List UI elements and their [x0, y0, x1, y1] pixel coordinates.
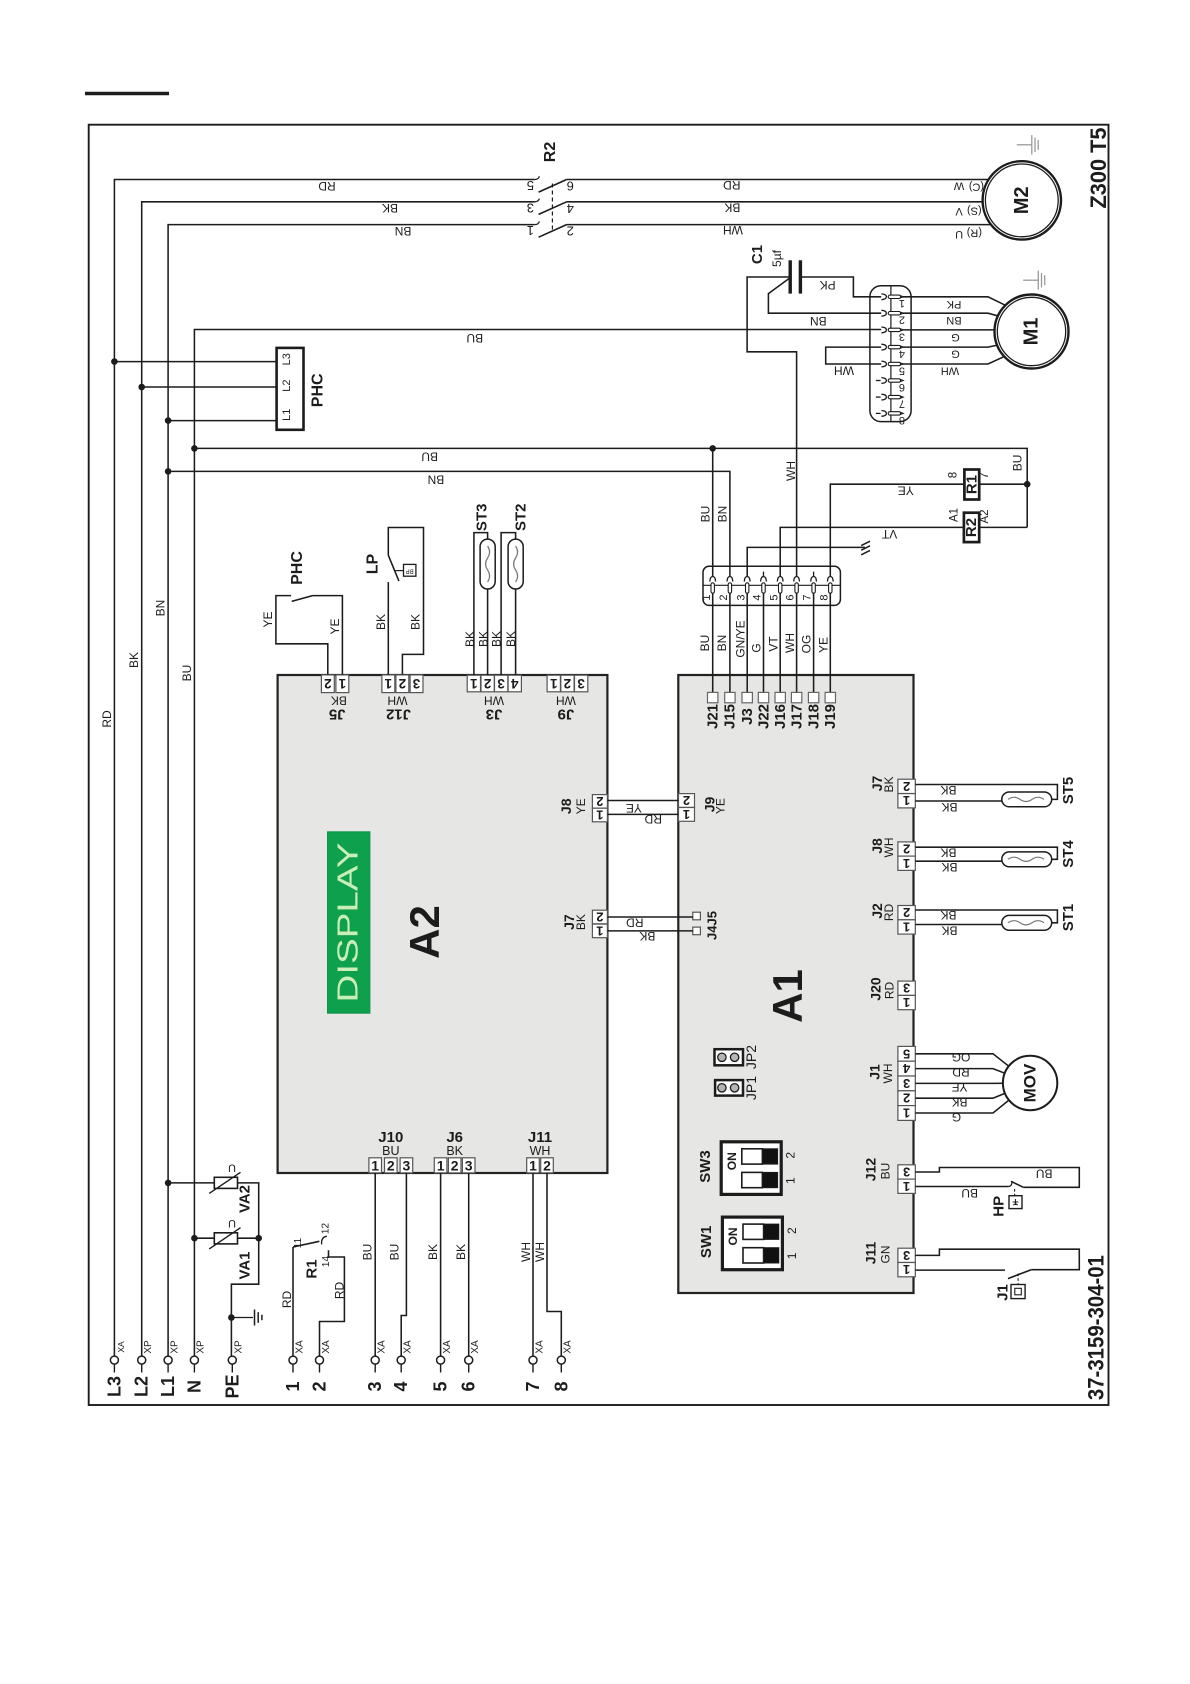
- svg-text:J5: J5: [329, 705, 346, 722]
- svg-text:W: W: [953, 180, 964, 192]
- wire J7 to J5 RD: [607, 916, 692, 930]
- svg-text:XA: XA: [377, 1340, 388, 1354]
- svg-text:J16: J16: [772, 704, 789, 729]
- wire X2 pin1 to pad J21 BU: [698, 593, 713, 692]
- connector X1 body: [870, 286, 911, 422]
- svg-text:4: 4: [899, 348, 905, 360]
- svg-text:WH: WH: [530, 1144, 551, 1158]
- svg-text:ST5: ST5: [1060, 777, 1077, 805]
- svg-text:2: 2: [903, 779, 910, 794]
- wire L2 BK to switch R2: [127, 201, 535, 1356]
- dip switch SW3: [697, 1142, 798, 1195]
- wire J12 pin3 loop BU: [915, 1166, 1079, 1187]
- svg-text:1: 1: [903, 1106, 910, 1121]
- varistor VA2: [165, 1162, 259, 1239]
- svg-text:1: 1: [527, 223, 534, 238]
- wire C1 to X1 pin2 BN: [768, 279, 881, 328]
- svg-text:BK: BK: [454, 1244, 468, 1260]
- svg-text:3: 3: [497, 676, 505, 691]
- pad J19 on A1: [822, 692, 839, 729]
- pad J17 on A1: [788, 692, 805, 729]
- svg-text:3: 3: [412, 676, 420, 691]
- svg-text:J12: J12: [386, 705, 411, 722]
- svg-text:2: 2: [451, 1157, 459, 1173]
- svg-text:LP: LP: [364, 553, 381, 574]
- svg-text:XA: XA: [321, 1340, 332, 1354]
- wire BN branch L1 to connector X2 pin2: [165, 468, 730, 576]
- svg-text:C1: C1: [749, 245, 766, 264]
- wire C1 to X2 pin6 WH: [747, 277, 798, 576]
- svg-text:(R): (R): [967, 227, 982, 239]
- wire X1 pin2 to M1 BN: [893, 313, 1032, 326]
- svg-text:BN: BN: [428, 473, 445, 487]
- switch PHC door switch: [261, 551, 342, 675]
- wire J7 to J4 BK: [607, 929, 692, 943]
- connector X1 pin 5: [881, 361, 905, 376]
- svg-text:1: 1: [384, 676, 392, 691]
- svg-text:4: 4: [902, 1061, 910, 1076]
- wire X2 pin5 to pad J16 VT: [766, 593, 780, 692]
- svg-text:3: 3: [899, 330, 905, 342]
- svg-text:7: 7: [899, 398, 905, 410]
- svg-text:WH: WH: [834, 364, 854, 378]
- svg-text:BK: BK: [374, 614, 388, 630]
- svg-text:BK: BK: [724, 200, 740, 214]
- svg-text:XA: XA: [294, 1340, 305, 1354]
- svg-text:VA1: VA1: [237, 1251, 254, 1279]
- svg-text:BU: BU: [387, 1244, 401, 1261]
- terminal 7: [523, 1340, 545, 1392]
- wire R2 to M2 W RD: [567, 178, 1000, 193]
- svg-text:U: U: [228, 1162, 236, 1174]
- svg-text:L2: L2: [281, 379, 293, 391]
- svg-text:BK: BK: [426, 1244, 440, 1260]
- svg-text:R2: R2: [542, 142, 559, 163]
- svg-text:J17: J17: [788, 704, 805, 729]
- svg-text:J8: J8: [558, 798, 574, 814]
- svg-text:BK: BK: [941, 800, 957, 814]
- relay coil R2: [949, 508, 1028, 542]
- connector J5 on A2: [321, 675, 348, 722]
- connector J11 on A1: [863, 1241, 916, 1277]
- svg-text:3: 3: [465, 1157, 473, 1173]
- connector J7 on A1: [869, 776, 915, 809]
- svg-text:BU: BU: [360, 1244, 374, 1261]
- svg-text:1: 1: [785, 1252, 799, 1259]
- ground symbol at M1: [1023, 271, 1044, 290]
- terminal 5: [431, 1340, 453, 1392]
- svg-text:8: 8: [948, 472, 960, 478]
- display module DISPLAY: [328, 832, 370, 1013]
- svg-text:2: 2: [596, 794, 603, 809]
- svg-text:1: 1: [529, 1157, 537, 1173]
- svg-text:BK: BK: [463, 631, 477, 647]
- svg-text:RD: RD: [882, 904, 896, 922]
- svg-text:6: 6: [459, 1381, 479, 1391]
- connector J8 on A1: [869, 838, 915, 871]
- wire X2 pin1 from BU branch: [712, 448, 714, 576]
- svg-text:BK: BK: [408, 614, 422, 630]
- svg-text:RD: RD: [626, 916, 644, 930]
- svg-text:2: 2: [903, 1091, 910, 1106]
- svg-text:ST1: ST1: [1060, 904, 1077, 932]
- switch HP pressure switch: [915, 1181, 1023, 1216]
- svg-text:BP: BP: [406, 567, 414, 573]
- svg-text:BU: BU: [421, 450, 438, 464]
- svg-text:WH: WH: [723, 223, 743, 237]
- svg-text:2: 2: [899, 314, 905, 326]
- jumper X1 pins 4-5 WH: [826, 347, 882, 378]
- label J4J5: [705, 911, 720, 940]
- svg-text:XP: XP: [169, 1340, 180, 1354]
- svg-text:XA: XA: [442, 1340, 453, 1354]
- sensor ST2: [490, 504, 530, 676]
- svg-text:5: 5: [527, 178, 534, 193]
- svg-text:L2: L2: [132, 1376, 152, 1397]
- svg-text:1: 1: [903, 856, 910, 871]
- wire J11 pin2 to terminal 8 WH: [533, 1173, 562, 1356]
- connector J12 on A2: [382, 675, 423, 722]
- svg-text:VT: VT: [766, 636, 780, 652]
- svg-text:PK: PK: [820, 278, 836, 292]
- svg-text:A2: A2: [979, 509, 991, 523]
- pad J5 on A1: [693, 912, 701, 920]
- svg-text:1: 1: [903, 919, 910, 934]
- svg-text:RD: RD: [952, 1065, 970, 1079]
- wire GN/YE X2 pin3 to chassis: [747, 547, 865, 576]
- terminal 8: [551, 1340, 573, 1392]
- connector J20 on A1: [868, 977, 916, 1010]
- svg-text:RD: RD: [644, 812, 662, 826]
- PCB board A2 (display board): [278, 675, 608, 1173]
- svg-text:1: 1: [903, 1262, 910, 1277]
- svg-text:YE: YE: [626, 801, 642, 815]
- connector X2 pin 7: [802, 572, 817, 601]
- connector J9 on A1: [679, 793, 728, 822]
- svg-text:JP1: JP1: [743, 1076, 759, 1100]
- wire J6 pin3 to terminal 6 BK: [454, 1173, 469, 1356]
- svg-text:BK: BK: [940, 908, 956, 922]
- svg-text:BU: BU: [180, 665, 194, 682]
- svg-text:3: 3: [903, 981, 910, 996]
- svg-text:RD: RD: [318, 179, 336, 193]
- switch J1 flow switch: [915, 1270, 1031, 1301]
- svg-text:BU: BU: [699, 506, 713, 523]
- wire YE X2 pin8 to R1: [830, 484, 964, 577]
- motor M2: [983, 161, 1061, 239]
- dip switch SW1: [698, 1217, 799, 1270]
- wire X1 pin3 to M1 G: [893, 330, 1032, 343]
- terminal PE: [222, 1340, 244, 1399]
- wire X2 pin8 to pad J19 YE: [817, 593, 831, 692]
- svg-text:(S): (S): [967, 204, 982, 216]
- wire J10 pin1 to terminal 3 BU: [360, 1173, 375, 1356]
- wire J11 pin1 to terminal 7 WH: [519, 1173, 533, 1356]
- wire L3 RD to switch R2: [100, 179, 535, 1356]
- svg-text:OG: OG: [800, 635, 814, 654]
- svg-text:2: 2: [718, 594, 730, 600]
- terminal L2: [132, 1340, 154, 1397]
- svg-text:R1: R1: [304, 1259, 321, 1278]
- connector X1 pin 3: [881, 327, 905, 342]
- pad J21 on A1: [705, 692, 722, 729]
- svg-text:1: 1: [437, 1157, 445, 1173]
- svg-text:XA: XA: [116, 1341, 126, 1353]
- svg-text:BN: BN: [395, 224, 412, 238]
- svg-text:2: 2: [399, 676, 407, 691]
- svg-text:BU: BU: [466, 331, 483, 345]
- svg-text:1: 1: [470, 676, 478, 691]
- svg-text:VA2: VA2: [237, 1185, 254, 1213]
- pad J16 on A1: [772, 692, 789, 729]
- svg-text:3: 3: [903, 1076, 910, 1091]
- svg-text:N: N: [184, 1380, 204, 1393]
- pad J15 on A1: [722, 692, 739, 729]
- svg-text:PK: PK: [946, 298, 961, 310]
- wire X2 pin2 to pad J15 BN: [715, 593, 730, 692]
- connector X1 pin 7: [876, 394, 905, 409]
- svg-text:37-3159-304-01: 37-3159-304-01: [1084, 1255, 1109, 1400]
- svg-text:ST4: ST4: [1060, 840, 1077, 868]
- connector X2 pin 1: [701, 577, 716, 601]
- svg-text:G: G: [951, 331, 960, 343]
- switch R2 pole 1-2: [527, 221, 574, 238]
- svg-text:3: 3: [735, 594, 747, 600]
- svg-text:BN: BN: [154, 600, 168, 617]
- sensor ST1: [915, 904, 1077, 938]
- svg-text:1: 1: [899, 297, 905, 309]
- svg-text:1: 1: [784, 1177, 798, 1184]
- svg-text:VT: VT: [881, 527, 897, 541]
- svg-text:WH: WH: [533, 1242, 547, 1262]
- wire BU branch N to relay coils: [191, 445, 1030, 527]
- svg-text:J1: J1: [994, 1284, 1011, 1301]
- motor M1: [995, 295, 1069, 369]
- svg-text:ON: ON: [725, 1152, 739, 1170]
- svg-text:R1: R1: [963, 475, 980, 494]
- relay contact R1 11-12-14: [280, 1223, 346, 1357]
- terminal N: [184, 1340, 206, 1393]
- wire X1 pin5 to M1 WH: [893, 344, 1032, 377]
- svg-text:BU: BU: [1036, 1166, 1053, 1180]
- wire X1 pin1 to M1 PK: [893, 297, 1032, 318]
- pad J18 on A1: [805, 692, 822, 729]
- svg-text:14: 14: [321, 1256, 332, 1268]
- svg-text:BK: BK: [639, 929, 655, 943]
- connector X1 pin 1: [881, 294, 905, 309]
- svg-text:2: 2: [543, 1157, 551, 1173]
- svg-text:XA: XA: [534, 1340, 545, 1354]
- svg-text:V: V: [955, 205, 963, 217]
- svg-text:GN/YE: GN/YE: [733, 620, 747, 657]
- svg-text:XP: XP: [196, 1340, 207, 1354]
- svg-text:HP: HP: [990, 1196, 1007, 1217]
- wire X2 pin6 to pad J17 WH: [783, 593, 797, 692]
- wire X2 pin4 to pad J22 G: [750, 593, 764, 692]
- connector X1 pin 6: [876, 378, 905, 393]
- wire R2 to M2 V BK: [567, 200, 1000, 217]
- connector J10 on A2: [369, 1129, 413, 1173]
- svg-text:8: 8: [818, 594, 830, 600]
- svg-text:BK: BK: [382, 201, 398, 215]
- svg-text:J18: J18: [805, 704, 822, 729]
- svg-text:3: 3: [365, 1381, 385, 1391]
- svg-text:SW3: SW3: [697, 1150, 714, 1183]
- svg-text:4: 4: [510, 676, 518, 691]
- terminal 1: [283, 1340, 305, 1392]
- terminal 3: [365, 1340, 387, 1392]
- wire L2 to PHC: [138, 384, 276, 391]
- svg-text:BU: BU: [698, 635, 712, 652]
- svg-text:BK: BK: [331, 693, 347, 707]
- svg-text:YE: YE: [574, 798, 588, 814]
- svg-text:2: 2: [387, 1157, 395, 1173]
- svg-text:BK: BK: [446, 1144, 463, 1158]
- svg-text:WH: WH: [783, 633, 797, 653]
- svg-text:1: 1: [283, 1381, 303, 1391]
- svg-text:L3: L3: [281, 353, 293, 365]
- wire J11 pin3 loop: [915, 1249, 1079, 1270]
- svg-text:A1: A1: [764, 969, 811, 1023]
- wires J1 to MOV: [915, 1050, 1030, 1124]
- svg-text:ST2: ST2: [512, 504, 529, 532]
- svg-text:BK: BK: [504, 631, 518, 647]
- svg-text:11: 11: [293, 1237, 304, 1248]
- svg-text:J9: J9: [558, 705, 575, 722]
- wire L1 to PHC: [165, 417, 277, 424]
- svg-text:2: 2: [785, 1227, 799, 1234]
- svg-text:YE: YE: [261, 611, 275, 627]
- svg-text:YE: YE: [817, 637, 831, 653]
- svg-text:4: 4: [567, 201, 574, 216]
- svg-text:RD: RD: [280, 1291, 294, 1309]
- wire J8 to J9 YE: [607, 801, 678, 816]
- connector J12 on A1: [863, 1158, 916, 1194]
- svg-text:WH: WH: [484, 693, 504, 707]
- svg-text:BK: BK: [490, 631, 504, 647]
- wire L1 BN to switch R2: [154, 224, 535, 1356]
- svg-text:BK: BK: [940, 783, 956, 797]
- svg-text:2: 2: [903, 842, 910, 857]
- svg-text:BK: BK: [951, 1095, 967, 1109]
- svg-text:RD: RD: [883, 982, 897, 1000]
- connector J2 on A1: [869, 903, 915, 934]
- wire X2 pin1 BU label: [699, 506, 713, 523]
- svg-text:G: G: [750, 643, 764, 652]
- svg-text:YE: YE: [714, 798, 728, 814]
- svg-text:2: 2: [903, 905, 910, 920]
- svg-text:WH: WH: [882, 838, 896, 858]
- connector J8 on A2: [558, 794, 608, 823]
- svg-text:RD: RD: [100, 710, 114, 728]
- svg-text:WH: WH: [784, 461, 798, 481]
- svg-text:BU: BU: [879, 1163, 893, 1180]
- svg-text:3: 3: [903, 1165, 910, 1180]
- svg-text:3: 3: [527, 200, 534, 215]
- svg-text:RD: RD: [723, 178, 741, 192]
- wire X1 pin4 to M1 G: [893, 338, 1032, 360]
- terminal 2: [310, 1340, 332, 1392]
- ground symbol at M2: [1017, 135, 1038, 154]
- wire X2 pin2 BN label: [716, 506, 730, 523]
- svg-text:G: G: [952, 1110, 961, 1124]
- svg-text:BU: BU: [961, 1186, 978, 1200]
- svg-text:12: 12: [320, 1223, 331, 1235]
- svg-text:J20: J20: [868, 977, 884, 1001]
- svg-text:7: 7: [802, 594, 814, 600]
- jumper JP1: [715, 1076, 759, 1100]
- svg-text:J15: J15: [722, 704, 739, 729]
- svg-text:1: 1: [701, 594, 713, 600]
- svg-text:5: 5: [899, 364, 905, 376]
- varistor VA1: [191, 1217, 262, 1280]
- svg-text:XA: XA: [563, 1340, 574, 1354]
- svg-text:4: 4: [391, 1381, 411, 1391]
- svg-text:1: 1: [550, 676, 558, 691]
- svg-text:U: U: [955, 228, 963, 240]
- svg-text:BK: BK: [941, 860, 957, 874]
- svg-text:L1: L1: [281, 409, 293, 421]
- switch LP with lamp BP: [364, 528, 423, 675]
- svg-text:8: 8: [551, 1381, 571, 1391]
- connector X2 pin 8: [818, 577, 833, 601]
- svg-text:DISPLAY: DISPLAY: [333, 843, 365, 1003]
- connector PHC mains filter: [277, 348, 327, 430]
- switch R2 pole 5-6: [527, 176, 574, 193]
- pad J4 on A1: [693, 927, 701, 935]
- sensor ST4: [915, 840, 1077, 874]
- svg-text:1: 1: [596, 923, 603, 938]
- svg-text:1: 1: [903, 1179, 910, 1194]
- capacitor C1 5uf: [749, 245, 800, 294]
- svg-text:BK: BK: [127, 652, 141, 668]
- switch R2 pole 3-4: [527, 199, 574, 216]
- svg-text:2: 2: [567, 224, 574, 239]
- terminal 6: [459, 1340, 481, 1392]
- svg-text:M1: M1: [1021, 318, 1043, 346]
- connector J7 on A2: [561, 910, 607, 939]
- svg-text:J12: J12: [863, 1158, 879, 1182]
- svg-text:BK: BK: [941, 924, 957, 938]
- wire R2 to M2 U WH: [567, 223, 1000, 240]
- svg-text:YE: YE: [898, 484, 914, 498]
- svg-text:JP2: JP2: [743, 1045, 759, 1069]
- svg-text:1: 1: [338, 676, 346, 691]
- svg-text:3: 3: [903, 1248, 910, 1263]
- svg-text:MOV: MOV: [1021, 1063, 1040, 1102]
- PCB board A1 (main board): [678, 675, 913, 1293]
- svg-text:2: 2: [484, 676, 492, 691]
- svg-text:1: 1: [903, 995, 910, 1010]
- svg-text:6: 6: [899, 381, 905, 393]
- svg-text:2: 2: [564, 676, 572, 691]
- svg-text:2: 2: [784, 1152, 798, 1159]
- svg-text:PHC: PHC: [289, 551, 306, 585]
- varistor module MOV: [1003, 1056, 1057, 1110]
- wire J6 pin1 to terminal 5 BK: [426, 1173, 441, 1356]
- connector X1 pin 4: [881, 344, 905, 359]
- connector J9 on A2: [547, 675, 588, 722]
- svg-text:6: 6: [785, 594, 797, 600]
- svg-text:BN: BN: [810, 314, 827, 328]
- svg-text:4: 4: [752, 594, 764, 600]
- svg-text:U: U: [228, 1217, 236, 1229]
- svg-text:(C): (C): [969, 180, 984, 192]
- svg-text:PE: PE: [222, 1374, 242, 1398]
- svg-text:3: 3: [577, 676, 585, 691]
- terminal 4: [391, 1340, 413, 1392]
- svg-text:BK: BK: [476, 631, 490, 647]
